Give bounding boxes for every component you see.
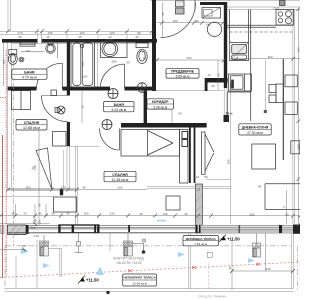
svg-text:БАНЯ: БАНЯ bbox=[24, 70, 35, 74]
svg-text:12: 12 bbox=[207, 73, 211, 77]
svg-text:240: 240 bbox=[265, 267, 270, 271]
svg-text:12: 12 bbox=[143, 56, 147, 60]
svg-text:20: 20 bbox=[37, 220, 41, 224]
svg-text:1.30: 1.30 bbox=[33, 234, 39, 238]
svg-text:45: 45 bbox=[38, 212, 42, 216]
svg-text:45: 45 bbox=[139, 212, 143, 216]
svg-text:4.70 кв.м: 4.70 кв.м bbox=[22, 76, 37, 80]
svg-text:12: 12 bbox=[46, 35, 50, 39]
svg-text:+11.50: +11.50 bbox=[86, 278, 99, 283]
svg-text:90: 90 bbox=[37, 203, 41, 207]
svg-text:25: 25 bbox=[18, 35, 22, 39]
svg-text:ЖИЛИЩНА ТЕРАСА: ЖИЛИЩНА ТЕРАСА bbox=[185, 237, 217, 241]
svg-text:363: 363 bbox=[267, 55, 272, 59]
svg-text:190: 190 bbox=[83, 212, 88, 216]
svg-text:45: 45 bbox=[82, 186, 86, 190]
svg-text:60: 60 bbox=[216, 73, 220, 77]
svg-text:СПАЛНЯ: СПАЛНЯ bbox=[112, 173, 128, 177]
svg-text:+11.50: +11.50 bbox=[227, 236, 240, 241]
svg-text:70: 70 bbox=[23, 212, 27, 216]
svg-text:12: 12 bbox=[108, 35, 112, 39]
svg-text:25: 25 bbox=[135, 35, 139, 39]
svg-text:50: 50 bbox=[204, 175, 208, 179]
svg-text:20: 20 bbox=[285, 213, 289, 217]
svg-text:90: 90 bbox=[51, 212, 55, 216]
svg-text:12.88 кв.м: 12.88 кв.м bbox=[23, 126, 40, 130]
svg-text:170: 170 bbox=[60, 186, 65, 190]
svg-text:90: 90 bbox=[26, 49, 30, 53]
svg-text:130: 130 bbox=[162, 212, 167, 216]
svg-text:130: 130 bbox=[109, 212, 114, 216]
svg-text:90: 90 bbox=[11, 212, 15, 216]
svg-text:11.38 кв.м: 11.38 кв.м bbox=[112, 178, 129, 182]
svg-text:5.69 кв.м: 5.69 кв.м bbox=[176, 74, 190, 78]
svg-text:35: 35 bbox=[228, 266, 232, 270]
svg-text:160: 160 bbox=[117, 186, 122, 190]
svg-text:90: 90 bbox=[22, 244, 26, 248]
svg-text:362: 362 bbox=[30, 226, 35, 230]
svg-text:203: 203 bbox=[186, 56, 191, 60]
svg-text:ПЛОЩ ПО ГРАФИКА: ПЛОЩ ПО ГРАФИКА bbox=[198, 295, 227, 299]
svg-text:45: 45 bbox=[184, 212, 188, 216]
svg-text:12.00 кв.м: 12.00 кв.м bbox=[132, 282, 147, 286]
svg-text:36: 36 bbox=[126, 61, 130, 65]
svg-text:НЕПОКРИТА ТЕРАСА: НЕПОКРИТА ТЕРАСА bbox=[124, 276, 157, 280]
svg-text:77: 77 bbox=[283, 205, 287, 209]
svg-text:36: 36 bbox=[195, 19, 199, 23]
svg-text:155: 155 bbox=[2, 59, 6, 64]
svg-text:60: 60 bbox=[211, 84, 215, 88]
svg-text:365: 365 bbox=[249, 212, 254, 216]
svg-text:КОРИДОР: КОРИДОР bbox=[152, 100, 169, 104]
svg-text:12: 12 bbox=[196, 175, 200, 179]
svg-text:45: 45 bbox=[258, 184, 262, 188]
svg-text:163: 163 bbox=[172, 19, 177, 23]
svg-text:ПРЕДДВЕРИЕ: ПРЕДДВЕРИЕ bbox=[171, 70, 195, 74]
svg-text:3.09 кв.м: 3.09 кв.м bbox=[153, 105, 168, 109]
svg-text:155: 155 bbox=[81, 61, 85, 66]
svg-text:360: 360 bbox=[25, 186, 30, 190]
svg-text:305: 305 bbox=[227, 159, 231, 164]
svg-text:50: 50 bbox=[178, 112, 182, 116]
svg-text:13.63: 13.63 bbox=[273, 6, 280, 10]
svg-text:300: 300 bbox=[296, 144, 300, 149]
svg-text:280: 280 bbox=[111, 60, 116, 64]
svg-text:102: 102 bbox=[82, 75, 87, 79]
svg-text:СПАЛНЯ: СПАЛНЯ bbox=[24, 121, 40, 125]
svg-text:90: 90 bbox=[66, 212, 70, 216]
svg-text:30: 30 bbox=[81, 105, 85, 109]
svg-text:363: 363 bbox=[296, 47, 300, 52]
svg-text:4.24 кв.м: 4.24 кв.м bbox=[111, 108, 126, 112]
svg-text:90: 90 bbox=[161, 12, 165, 16]
svg-text:25: 25 bbox=[197, 188, 201, 192]
svg-text:НА КОТА +13.00: НА КОТА +13.00 bbox=[116, 261, 141, 265]
svg-text:ПС: ПС bbox=[207, 23, 211, 27]
svg-text:27.30 кв.м: 27.30 кв.м bbox=[247, 131, 263, 135]
svg-text:БАНЯ: БАНЯ bbox=[114, 103, 125, 107]
svg-text:КОНТУР НА СГРАД.: КОНТУР НА СГРАД. bbox=[113, 257, 144, 261]
svg-text:25: 25 bbox=[78, 35, 82, 39]
svg-text:7.19 кв.м: 7.19 кв.м bbox=[194, 242, 207, 246]
svg-text:ДНЕВНА-КУХНЯ: ДНЕВНА-КУХНЯ bbox=[242, 126, 269, 130]
